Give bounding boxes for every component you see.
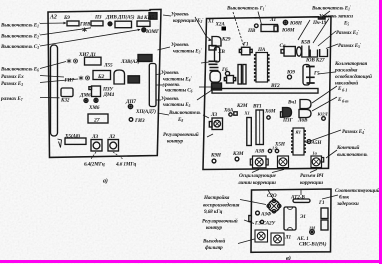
svg-text:Ю9: Ю9 — [286, 70, 295, 76]
svg-text:выключатель: выключатель — [337, 152, 368, 158]
svg-text:Осциллирующие: Осциллирующие — [239, 173, 277, 179]
svg-text:ГИЗ: ГИЗ — [134, 118, 145, 124]
svg-text:ГИВ: ГИВ — [79, 22, 91, 28]
svg-text:Х5(А8): Х5(А8) — [64, 133, 80, 140]
svg-text:Выключатель Е2': Выключатель Е2' — [0, 32, 41, 39]
svg-text:К9Н: К9Н — [210, 153, 222, 159]
svg-text:воспроизведения: воспроизведения — [203, 201, 240, 208]
svg-text:ПЗ: ПЗ — [94, 15, 102, 21]
svg-text:Уровень записи: Уровень записи — [319, 14, 353, 20]
svg-text:ГИ7: ГИ7 — [64, 78, 75, 84]
svg-text:ВТ1: ВТ1 — [252, 104, 262, 110]
svg-text:Ю8М: Ю8М — [281, 28, 295, 34]
svg-text:Л3: Л3 — [210, 112, 217, 118]
svg-text:контур: контур — [206, 225, 223, 231]
svg-text:Б9: Б9 — [63, 15, 70, 21]
svg-text:частоты С6: частоты С6 — [165, 88, 193, 94]
svg-text:АТ2-В: АТ2-В — [290, 195, 305, 201]
svg-text:ПЗГ: ПЗГ — [282, 118, 293, 124]
svg-text:фильтр: фильтр — [205, 244, 223, 251]
svg-text:К3М: К3М — [232, 151, 244, 157]
svg-text:Размах Е3: Размах Е3 — [1, 81, 23, 87]
svg-text:коррекции: коррекции — [300, 180, 323, 186]
svg-text:Х2А: Х2А — [215, 21, 226, 27]
svg-text:ХВ: ХВ — [217, 49, 225, 55]
svg-text:ЮВ К27: ЮВ К27 — [305, 58, 325, 64]
svg-text:Г1: Г1 — [242, 42, 249, 48]
svg-text:Пч-19: Пч-19 — [312, 20, 327, 26]
svg-text:Регулировочный: Регулировочный — [202, 217, 238, 224]
svg-text:9,68 кГц: 9,68 кГц — [204, 209, 222, 215]
svg-text:ЮМГ: ЮМГ — [145, 29, 160, 35]
svg-text:Выключатель Е1': Выключатель Е1' — [311, 4, 352, 11]
svg-text:АЗВ: АЗВ — [254, 149, 265, 155]
svg-text:Регулировочный: Регулировочный — [163, 131, 199, 138]
svg-text:К2М: К2М — [236, 103, 248, 109]
svg-text:частоты Е3': частоты Е3' — [173, 47, 202, 54]
svg-text:задержки: задержки — [336, 200, 359, 207]
svg-text:ВТ2: ВТ2 — [270, 83, 280, 89]
svg-text:Разъем ВЧ: Разъем ВЧ — [300, 173, 325, 179]
svg-text:коррекции Е2': коррекции Е2' — [173, 17, 204, 24]
svg-text:Л2: Л2 — [108, 134, 115, 140]
svg-text:Я1: Я1 — [295, 130, 301, 135]
svg-text:Ю2Л: Ю2Л — [317, 112, 329, 117]
svg-text:Са: Са — [280, 43, 286, 49]
svg-text:А2: А2 — [49, 15, 57, 21]
svg-text:раскладка: раскладка — [334, 67, 358, 74]
svg-text:Г.9 СА2У: Г.9 СА2У — [254, 221, 277, 227]
svg-text:ХП(АД7): ХП(АД7) — [135, 108, 156, 115]
svg-text:ЛЗ: ЛЗ — [91, 134, 98, 140]
svg-text:Выключатель Е6: Выключатель Е6 — [0, 67, 39, 73]
svg-text:размах Е7: размах Е7 — [0, 96, 23, 102]
svg-text:К5В: К5В — [300, 40, 311, 46]
svg-text:ДИВ ДП(А5): ДИВ ДП(А5) — [105, 14, 135, 21]
svg-text:1.9: 1.9 — [272, 146, 278, 151]
svg-text:контур: контур — [167, 139, 184, 145]
svg-text:Выключатель Е1': Выключатель Е1' — [0, 21, 41, 28]
svg-text:б-1: б-1 — [342, 88, 347, 93]
svg-text:Соответствующий: Соответствующий — [335, 187, 380, 194]
svg-text:СИС-В1(РА): СИС-В1(РА) — [299, 241, 327, 248]
svg-text:линии коррекции: линии коррекции — [237, 180, 276, 186]
svg-text:К32: К32 — [60, 98, 70, 104]
svg-text:Л1: Л1 — [284, 235, 291, 241]
svg-text:Коллекторная: Коллекторная — [334, 61, 367, 67]
svg-text:Х6А: Х6А — [223, 108, 234, 114]
svg-text:ДМ6: ДМ6 — [79, 93, 91, 99]
svg-text:Вч1: Вч1 — [287, 99, 297, 105]
svg-text:АЗФ: АЗФ — [260, 212, 272, 218]
svg-text:4,6 1МГц: 4,6 1МГц — [115, 162, 136, 168]
svg-text:Х1: Х1 — [244, 111, 250, 116]
svg-text:ЛЗВ(А2): ЛЗВ(А2) — [120, 58, 140, 65]
svg-text:а): а) — [103, 178, 108, 185]
svg-text:Выключатель С3': Выключатель С3' — [0, 43, 41, 50]
svg-text:ДП7: ДП7 — [125, 99, 136, 105]
svg-text:Размах Ех: Размах Ех — [1, 74, 24, 80]
svg-text:Ю8Н: Ю8Н — [289, 21, 303, 27]
svg-text:Б2: Б2 — [97, 74, 104, 80]
svg-text:ПВ: ПВ — [247, 28, 256, 34]
svg-text:А5Н: А5Н — [311, 140, 323, 146]
svg-text:Х1: Х1 — [207, 19, 214, 25]
svg-text:ПА: ПА — [257, 47, 266, 53]
svg-text:Х6М: Х6М — [264, 109, 276, 115]
svg-text:освобождающей: освобождающей — [335, 73, 372, 80]
svg-text:Г1: Г1 — [318, 200, 325, 206]
svg-text:Выходной: Выходной — [202, 238, 225, 245]
svg-text:ДМ4: ДМ4 — [103, 92, 115, 98]
svg-text:ХМ6: ХМ6 — [88, 105, 100, 111]
svg-text:Конечный: Конечный — [336, 144, 360, 151]
svg-text:Л1: Л1 — [269, 17, 276, 23]
svg-text:К29: К29 — [221, 37, 231, 43]
svg-text:Г5: Г5 — [313, 71, 320, 77]
svg-text:блок: блок — [339, 194, 349, 201]
svg-text:Л55: Л55 — [103, 63, 113, 69]
svg-text:6,4(2МГц: 6,4(2МГц — [84, 161, 105, 168]
svg-text:Л6В: Л6В — [297, 118, 308, 124]
svg-text:Уровень: Уровень — [161, 70, 179, 76]
svg-text:Выключатель: Выключатель — [168, 110, 201, 116]
svg-text:Выключатель Г1': Выключатель Г1' — [226, 4, 267, 11]
svg-text:В4 КЦ5: В4 КЦ5 — [136, 15, 154, 21]
svg-text:Э1: Э1 — [300, 214, 306, 220]
svg-text:Уровень: Уровень — [171, 12, 189, 18]
svg-text:б-т: б-т — [342, 99, 349, 104]
svg-text:частоты Е5: частоты Е5 — [163, 102, 191, 108]
svg-text:27: 27 — [93, 118, 100, 124]
svg-text:Уровень: Уровень — [171, 42, 189, 48]
svg-text:ХИ7 Д1: ХИ7 Д1 — [78, 52, 96, 58]
svg-text:Настройка: Настройка — [203, 194, 230, 201]
svg-text:Г6: Г6 — [221, 67, 228, 73]
svg-text:С2О: С2О — [267, 193, 277, 199]
